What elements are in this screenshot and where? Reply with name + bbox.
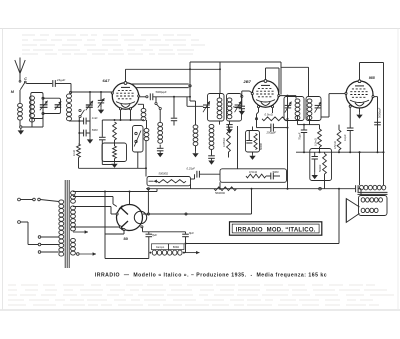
- capacitor C5: [226, 124, 232, 126]
- junction volume: [145, 167, 147, 169]
- RC box oscillator: [246, 131, 260, 153]
- svg-text:70μμF: 70μμF: [297, 132, 301, 140]
- field coil label box b: [169, 244, 185, 250]
- pin V3 k: [349, 105, 351, 107]
- svg-text:0.25μF: 0.25μF: [187, 167, 196, 171]
- resistor R12 0.05M: [228, 124, 230, 129]
- wire V2 cathode stubs: [258, 108, 260, 112]
- svg-text:50000Ω: 50000Ω: [215, 191, 226, 195]
- wire box down: [324, 174, 326, 189]
- wire RC box top stub: [252, 127, 254, 131]
- junction ring bus-left: [147, 188, 149, 190]
- wire switch down: [78, 118, 80, 144]
- wire C16 down: [101, 140, 103, 165]
- resistor R10 cathode: [113, 122, 117, 140]
- junction ring screen: [189, 85, 191, 87]
- wire L6 bottom: [195, 146, 197, 151]
- bandswitch box: [133, 126, 144, 153]
- pin V1 screen: [129, 108, 131, 110]
- junction ring L1: [20, 126, 22, 128]
- IF1 secondary coil: [227, 98, 232, 119]
- svg-text:50000: 50000: [260, 142, 263, 150]
- bias box: [102, 143, 127, 162]
- svg-text:800Ω: 800Ω: [173, 245, 179, 249]
- wire screen branch: [281, 66, 309, 68]
- resistor R1 bias: [78, 143, 81, 145]
- wire R1 to bus: [78, 158, 80, 169]
- voice coil: [361, 208, 378, 212]
- variable capacitor IF2a: [285, 104, 291, 106]
- IF2 primary coil: [295, 99, 300, 120]
- wire screen line b: [136, 87, 189, 89]
- switch SW1 M/C: [19, 80, 21, 82]
- wire L1 bottom: [19, 121, 21, 127]
- junction: [359, 151, 361, 153]
- svg-text:8μF: 8μF: [152, 233, 157, 237]
- wire V1 top cap: [125, 69, 127, 81]
- wire C19 down: [148, 237, 150, 253]
- junction ring plate: [146, 96, 148, 98]
- wire bias bus: [79, 167, 147, 169]
- junction avc: [303, 124, 305, 126]
- svg-text:IRRADIO MOD. “ITALICO.: IRRADIO MOD. “ITALICO.: [236, 227, 316, 233]
- wire bus B: [190, 61, 281, 63]
- junction ring heater-mid b: [185, 213, 187, 215]
- ground bias: [114, 159, 116, 162]
- pin V4 k2: [141, 226, 143, 228]
- capacitor C12 0.25uF: [196, 171, 198, 178]
- junction plate2: [287, 95, 289, 97]
- oscillator input coil L2a: [67, 94, 72, 103]
- power transformer T3 core: [64, 180, 66, 268]
- capacitor C19 8uF: [148, 232, 150, 234]
- junction ring gang bottom: [42, 112, 44, 114]
- T3 heater winding 1: [71, 191, 76, 203]
- ground IF1: [229, 127, 231, 129]
- capacitor C5 padder: [173, 97, 175, 118]
- svg-text:24μμF: 24μμF: [56, 78, 66, 82]
- resistor R13 50000: [254, 134, 257, 150]
- T3 HV winding: [71, 206, 76, 231]
- pin V3 grid: [345, 92, 347, 94]
- wire V3 cathode stub: [359, 108, 361, 112]
- wire bottom B bus: [186, 243, 340, 245]
- variable capacitor IF2b: [315, 104, 321, 106]
- svg-text:1mΩ: 1mΩ: [92, 116, 98, 120]
- wire volume vertical: [145, 140, 147, 177]
- wire screen feed vertical: [189, 62, 191, 101]
- junction bus A end: [219, 68, 221, 70]
- resistor R6 50000: [324, 152, 326, 153]
- IF transformer IF2 primary box: [284, 97, 304, 121]
- svg-text:C: C: [24, 77, 27, 81]
- capacitor C16 cathode bypass: [101, 120, 103, 137]
- ground antenna coil: [20, 128, 22, 130]
- junction tone-bus: [219, 188, 221, 190]
- oscillator switch contact a: [155, 102, 157, 104]
- heater tap terminal: [77, 253, 80, 256]
- svg-text:2B7: 2B7: [243, 79, 252, 84]
- wire mains 2: [20, 221, 28, 223]
- wire R10 into box: [114, 140, 116, 146]
- pin V4 a: [116, 213, 118, 215]
- pin V1 grid: [111, 92, 113, 94]
- pin V2 grid: [251, 93, 253, 95]
- T4 secondary: [361, 198, 382, 202]
- svg-text:5000μμF: 5000μμF: [156, 90, 167, 94]
- oscillator switch contact b: [159, 107, 161, 109]
- oscillator tank coil L7: [209, 124, 214, 149]
- capacitor C7 5000 grid: [241, 98, 243, 106]
- oscillator switch stub: [155, 97, 157, 103]
- svg-text:50000Ω: 50000Ω: [159, 171, 169, 175]
- svg-text:6A7: 6A7: [103, 79, 111, 83]
- wire V2 grid cap: [265, 68, 267, 80]
- wire heater line 1: [73, 191, 157, 193]
- wire tap b: [41, 244, 59, 246]
- ground L6: [195, 151, 197, 153]
- IF transformer IF1 secondary box: [227, 94, 242, 122]
- resistor R11: [113, 146, 117, 159]
- svg-text:80: 80: [124, 236, 129, 241]
- wire bus to mid line: [147, 189, 149, 213]
- wire osc feed jog: [190, 100, 196, 102]
- svg-text:5000: 5000: [233, 106, 239, 109]
- wire tone box to bus: [219, 182, 221, 188]
- svg-text:5000μμF: 5000μμF: [377, 107, 381, 118]
- wire bus A: [126, 68, 221, 70]
- pin V4 k1: [123, 229, 125, 231]
- field coil FC1: [152, 250, 182, 255]
- variable capacitor IF1a: [203, 104, 210, 106]
- bandswitch arm: [134, 131, 141, 147]
- wire switch to C1: [26, 83, 52, 85]
- tube V2 2B7: [252, 80, 278, 108]
- wire L1-L2 bottom link: [22, 126, 43, 128]
- wire B+ out arrow: [184, 252, 200, 254]
- resistor R8 0.5M: [246, 174, 266, 178]
- output transformer T4 primary: [360, 185, 386, 190]
- wire IF1 top: [219, 94, 221, 98]
- wire grid bus to V1: [72, 91, 112, 93]
- wire plate to IF1: [153, 96, 190, 98]
- wire plate decoupling vertical: [377, 97, 379, 153]
- wire dropper tap down: [251, 189, 253, 214]
- variable capacitor IF1b: [235, 104, 241, 106]
- svg-text:IRRADIO — Modello « Italico: IRRADIO — Modello « Italico ». – Produzi…: [95, 272, 327, 278]
- wire bus B down to V2: [280, 62, 282, 95]
- IF transformer IF2 secondary box: [306, 97, 321, 121]
- potentiometer R7 50000: [157, 180, 186, 183]
- junction grid bus: [89, 91, 91, 93]
- wire L3 bottom to cathode line: [143, 118, 145, 121]
- wire pot to C12: [191, 178, 195, 180]
- variable capacitor CV1: [40, 104, 48, 106]
- wire screen line a: [131, 83, 189, 85]
- wire bandswitch to bias bus: [137, 152, 139, 168]
- junction bottom bus: [185, 243, 187, 245]
- wire HV top: [73, 206, 111, 208]
- svg-text:8μF: 8μF: [189, 231, 194, 235]
- wire C1 to T2: [55, 83, 71, 85]
- resistor R9 50000: [214, 187, 237, 191]
- wire cathode line: [102, 119, 143, 121]
- junction field coil left: [149, 252, 151, 254]
- antenna coil L2: [30, 96, 35, 122]
- wire bus A to IF1: [219, 62, 221, 94]
- junction cathode line: [114, 119, 116, 121]
- ground CT2: [100, 107, 102, 109]
- wire tap a: [41, 236, 59, 238]
- wire C12 to tone box: [199, 173, 220, 175]
- svg-text:250μμF: 250μμF: [266, 130, 277, 134]
- tone network box: [220, 169, 287, 183]
- capacitor C8 5000uuF: [374, 121, 381, 123]
- capacitor C17 tank: [211, 149, 213, 155]
- wire main B bus: [146, 188, 355, 190]
- mains terminal 2: [18, 221, 21, 224]
- wire feedback vertical: [338, 189, 340, 244]
- rectifier tube V4 80: [117, 205, 147, 231]
- oscillator switch arm: [157, 104, 160, 107]
- svg-text:0.05mΩ: 0.05mΩ: [222, 138, 226, 147]
- tap contact a: [38, 236, 41, 239]
- wire V4 to heater return: [123, 231, 125, 234]
- IF transformer IF1 primary box: [208, 94, 225, 122]
- model label box inner: [232, 224, 319, 233]
- wire V1 plate: [140, 96, 146, 98]
- ground RC box: [252, 152, 254, 154]
- wire V3 top cap: [359, 63, 361, 81]
- tube V1 6A7: [112, 82, 138, 110]
- wire IF1 input: [186, 97, 188, 107]
- capacitor C2 grid: [83, 118, 85, 125]
- oscillator coil L3: [143, 104, 145, 108]
- oscillator coil L5: [159, 110, 161, 122]
- wire V2 plate: [280, 95, 296, 97]
- capacitor C18: [248, 131, 250, 141]
- antenna coil L1: [18, 103, 23, 120]
- pin V4 b: [119, 226, 121, 228]
- resistor R4 0.2M: [310, 124, 320, 126]
- IF2 secondary coil: [307, 99, 312, 120]
- junction B bus: [287, 188, 289, 190]
- wire field bus to output transformer: [359, 152, 361, 185]
- svg-text:985: 985: [369, 76, 376, 80]
- pin V1 plate: [138, 95, 140, 97]
- capacitor C20 8uF: [185, 232, 187, 234]
- capacitor C9 0.1: [347, 127, 354, 129]
- wire V3 plate: [374, 96, 378, 98]
- oscillator input coil L2b: [67, 103, 72, 120]
- ground V3 cathode: [359, 112, 361, 114]
- decoupling box: [310, 149, 332, 181]
- pin V3 plate: [372, 96, 374, 98]
- wire screen dropper vertical: [287, 96, 289, 189]
- svg-text:0.5mΩ: 0.5mΩ: [265, 112, 274, 116]
- scanned page right edge: [397, 29, 399, 311]
- capacitor C14 output coupling: [355, 185, 357, 192]
- antenna A1: [15, 58, 25, 74]
- svg-text:0.5mΩ: 0.5mΩ: [333, 141, 337, 149]
- tuning gang box: [43, 98, 61, 113]
- wire V3 diode stub: [349, 107, 351, 127]
- svg-text:0.2mΩ: 0.2mΩ: [313, 138, 317, 146]
- wire HV bottom: [73, 226, 120, 228]
- wire fuse to primary: [40, 200, 59, 202]
- svg-text:5000: 5000: [273, 170, 279, 174]
- wire R4 down: [319, 147, 321, 152]
- junction avc bus: [303, 151, 305, 153]
- trimmer capacitor CT2: [100, 92, 102, 100]
- wire C10 down: [303, 133, 305, 153]
- tube V3 85: [346, 80, 373, 108]
- wire top right bus: [360, 62, 384, 64]
- resistor R5 0.5M: [338, 125, 340, 130]
- wire heater arrow: [79, 253, 96, 255]
- speaker cone: [346, 199, 359, 223]
- wire IF2 bottoms: [297, 116, 299, 125]
- wire right edge vertical: [383, 63, 385, 186]
- junction ring osc coil top: [70, 91, 72, 93]
- wire CT arrow: [73, 231, 88, 233]
- wire C14 to speaker: [358, 188, 361, 190]
- wire avc bus: [296, 151, 384, 153]
- wire IF1 bottoms: [219, 121, 221, 125]
- oscillator tank coil L6: [193, 125, 198, 146]
- wire V1 cathode stubs: [120, 110, 122, 120]
- capacitor C11: [314, 152, 316, 156]
- speaker box: [359, 196, 388, 216]
- svg-text:0.1μF: 0.1μF: [343, 134, 347, 141]
- bleed-through ghost text bottom: [8, 284, 394, 306]
- wire pot box to bus: [190, 184, 192, 189]
- T3 primary winding: [59, 200, 64, 256]
- capacitor C15 osc: [159, 145, 161, 148]
- wire IF1 to V2 grid: [241, 91, 243, 95]
- gang section 2 variable capacitor: [89, 92, 91, 105]
- speaker cone edge: [345, 199, 347, 223]
- potentiometer arrow: [149, 180, 154, 182]
- ground AVC stub: [89, 133, 91, 137]
- model label box outer: [230, 222, 322, 235]
- wire tap c: [41, 251, 59, 253]
- wave switch contacts: [79, 109, 81, 111]
- wire B+ line: [142, 228, 144, 232]
- svg-text:1mΩ: 1mΩ: [72, 150, 76, 156]
- variable capacitor CV2: [55, 104, 62, 106]
- tap contact c: [38, 251, 41, 254]
- field coil label box a: [152, 244, 169, 250]
- junction R3 right: [287, 118, 289, 120]
- bleed-through ghost text top: [22, 34, 205, 55]
- ground C7: [241, 109, 243, 111]
- bandswitch contacts: [135, 132, 137, 134]
- resistor R3 0.5M: [262, 117, 288, 121]
- scanned page left edge: [2, 29, 4, 311]
- potentiometer box: [147, 177, 191, 186]
- svg-text:Campo: Campo: [156, 245, 165, 249]
- junction C6 right: [287, 127, 289, 129]
- pin V1 cathode: [119, 108, 121, 110]
- ground osc: [159, 151, 161, 153]
- capacitor C4 plate blocking: [149, 93, 151, 100]
- junction: [78, 120, 80, 122]
- capacitor C1 24uuF: [52, 80, 54, 87]
- wire V3 grid to IF2: [329, 93, 345, 95]
- svg-text:0.5mΩ: 0.5mΩ: [249, 170, 257, 174]
- scanned page top edge: [0, 28, 400, 30]
- IF1 primary coil: [217, 98, 222, 119]
- wire R5 down: [338, 150, 340, 152]
- capacitor C3 grid: [79, 132, 83, 134]
- junction ring decoupling to bus: [319, 187, 322, 190]
- junction heater: [104, 191, 106, 193]
- mains terminal 1: [18, 198, 21, 201]
- wire mains 1: [20, 199, 32, 201]
- terminal IF1 out: [241, 95, 243, 97]
- pin V2 k1: [257, 106, 259, 108]
- capacitor C10 70uuF: [303, 125, 305, 130]
- junction bus A: [189, 68, 191, 70]
- wire heater line 2: [73, 196, 113, 198]
- ground decoupling: [314, 159, 316, 173]
- pin V4 top: [129, 192, 131, 205]
- ground tank: [211, 158, 213, 160]
- svg-text:5000: 5000: [92, 128, 98, 132]
- wire C9 down: [349, 131, 351, 153]
- wire C20 down: [185, 237, 187, 245]
- junction field coil right: [183, 252, 185, 254]
- output transformer T4 core: [358, 191, 388, 193]
- junction ring cathode: [255, 118, 257, 120]
- pin V2 plate: [278, 95, 280, 97]
- capacitor C6 250uuF: [257, 127, 271, 129]
- wire heater down: [104, 192, 106, 235]
- oscillator coil L4: [146, 120, 148, 128]
- wave switch arm: [81, 110, 85, 116]
- wire R12 bottom: [228, 152, 230, 158]
- pin V2 k2: [271, 106, 273, 108]
- junction ring gang top: [42, 97, 44, 99]
- junction ring heater-mid a: [147, 213, 149, 215]
- tap contact b: [38, 243, 41, 246]
- svg-text:50000: 50000: [318, 164, 322, 172]
- coil shield box: [31, 93, 43, 119]
- capacitor C13 5000: [266, 175, 271, 177]
- junction plate node: [173, 96, 175, 98]
- wire coil bottom: [68, 120, 70, 123]
- wire heater return bottom: [104, 234, 106, 259]
- wire gang2 down: [89, 107, 91, 133]
- scanned page bottom edge: [0, 309, 400, 311]
- wire IF1 return vertical: [237, 126, 239, 169]
- T3 heater winding 2: [71, 238, 76, 255]
- fuse contacts: [33, 198, 36, 201]
